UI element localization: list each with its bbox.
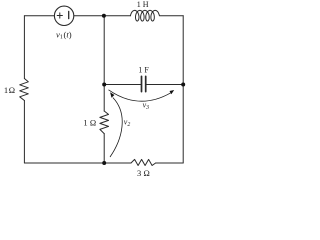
svg-text:1 Ω: 1 Ω (83, 118, 96, 128)
arrow arc v3 (109, 90, 175, 101)
wire middle vertical lower (103, 134, 105, 163)
voltage source plus sign (57, 13, 62, 18)
wire right vertical (182, 16, 184, 163)
arrow arc v2 (110, 92, 122, 157)
wire top middle segment (74, 15, 131, 17)
svg-text:v1(t): v1(t) (56, 29, 72, 40)
wire left vertical lower (23, 101, 25, 164)
resistor R1 1ohm left zigzag (20, 79, 29, 101)
svg-text:1 F: 1 F (138, 66, 149, 75)
label v1(t) (56, 29, 72, 40)
svg-text:3 Ω: 3 Ω (137, 168, 150, 178)
wire top-left segment (24, 15, 54, 17)
node middle top wire (103, 16, 105, 111)
node dot bottom (102, 161, 106, 165)
wire top-right segment (159, 15, 183, 17)
svg-text:1Ω: 1Ω (4, 85, 15, 95)
resistor R2 1ohm middle zigzag (100, 111, 109, 134)
label 1ohm middle (83, 118, 96, 128)
wire capacitor branch left (104, 84, 141, 86)
label 1F (138, 66, 149, 75)
node dot capacitor left (102, 83, 106, 87)
wire capacitor branch right (146, 84, 184, 86)
capacitor C1 plates (142, 76, 146, 91)
label v3 (143, 100, 150, 110)
node dot top (102, 14, 106, 18)
wire left vertical upper (23, 16, 25, 79)
label v2 (124, 118, 131, 128)
svg-text:v3: v3 (143, 100, 150, 110)
voltage source V1 circle (54, 6, 73, 25)
label 1H (137, 0, 149, 9)
voltage source bar (68, 11, 70, 18)
node dot capacitor right (181, 83, 185, 87)
svg-text:v2: v2 (124, 118, 131, 128)
svg-text:1 H: 1 H (137, 0, 149, 9)
wire bottom-right segment (156, 162, 184, 164)
inductor L1 1H coil (131, 10, 160, 21)
label 3ohm bottom (137, 168, 150, 178)
label 1ohm left (4, 85, 15, 95)
resistor R3 3ohm zigzag (131, 159, 156, 165)
wire bottom-left segment (24, 162, 131, 164)
